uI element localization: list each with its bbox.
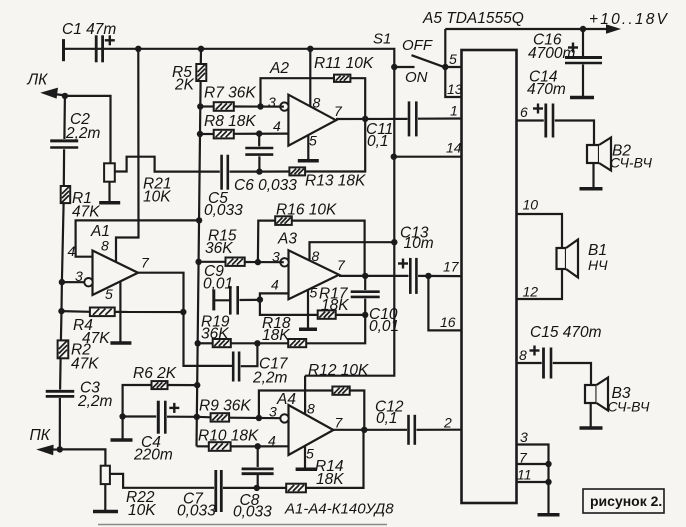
label C3 <box>80 380 100 397</box>
wire R13 left <box>259 170 289 172</box>
resistor R10 18K <box>209 442 231 451</box>
label R22 <box>126 489 155 506</box>
label C17 value <box>252 370 288 387</box>
label C8 value <box>233 503 272 520</box>
op-amp A4 <box>280 405 333 455</box>
label C12 <box>375 399 404 416</box>
svg-text:7: 7 <box>334 103 343 119</box>
resistor R17 18K <box>318 310 336 318</box>
label R19 <box>201 314 230 331</box>
wire pin 5 lead <box>445 66 461 68</box>
node junction dot A3 input3 / R16 <box>255 259 261 265</box>
node junction dot A4 input4 / C8 <box>255 443 261 449</box>
ground under pins 3-7-11 <box>538 513 560 517</box>
capacitor C16 polarity plus <box>568 43 578 53</box>
node junction dot S1 right / +V feed <box>442 64 448 70</box>
pin number 12 label <box>523 284 539 300</box>
wire C12 to pin 2 <box>417 429 462 431</box>
loudspeaker B3 <box>585 378 608 411</box>
label C7 value <box>177 503 216 520</box>
svg-text:8: 8 <box>101 238 109 254</box>
svg-text:18K: 18K <box>316 471 344 488</box>
label C7 <box>183 491 204 508</box>
label A2 <box>269 60 289 77</box>
node junction dot C10 / R17 / R18 <box>362 312 368 318</box>
wire R11 loop <box>261 78 335 106</box>
resistor R14 18K <box>286 484 306 493</box>
label C10 value <box>369 318 399 335</box>
potentiometer R21 10K <box>104 163 115 181</box>
wire A1 pin8 to top rail <box>116 49 139 262</box>
wire LK to R21 top <box>65 96 111 163</box>
capacitor C8 0,033 (vertical) <box>242 469 274 474</box>
wire R1 to A1 input3 node <box>62 203 64 282</box>
label R21 value <box>143 189 171 206</box>
node junction dot A3 output / R16 / C10 <box>362 273 368 279</box>
figure label box <box>583 489 664 513</box>
wire top rail from C1 to S1 <box>64 49 395 67</box>
label A3 pin3 <box>272 249 280 265</box>
label C6 value <box>234 177 297 194</box>
wire pin 14 lead <box>393 156 461 158</box>
wire C7 right to C8 node <box>223 487 257 489</box>
label A4 pin5 <box>306 446 314 462</box>
svg-text:0,1: 0,1 <box>367 133 389 150</box>
wire R18 left <box>257 342 288 344</box>
wire C10 bottom lead <box>364 299 366 315</box>
svg-text:0,033: 0,033 <box>177 503 216 520</box>
wire R22 bottom to ground <box>104 484 106 511</box>
wire R16 left <box>258 221 275 263</box>
svg-text:13: 13 <box>447 81 463 97</box>
resistor R12 10K <box>332 387 349 395</box>
node junction dot R9/C4 tap <box>194 414 200 420</box>
label A1 <box>90 223 110 240</box>
wire A3 pin5 to ground <box>307 290 309 328</box>
svg-text:18K: 18K <box>321 297 349 314</box>
capacitor C15 470m <box>544 348 552 379</box>
label R21 <box>143 176 171 193</box>
label C4 value <box>133 447 173 464</box>
wire pin 8 to C15 <box>517 362 542 364</box>
svg-text:2: 2 <box>443 415 452 431</box>
pin number 13 label <box>447 81 463 97</box>
capacitor C15 polarity plus <box>530 346 540 356</box>
label C12 value <box>376 410 398 427</box>
capacitor C16 4700m <box>565 58 602 64</box>
wire C16 top lead <box>582 29 584 56</box>
svg-text:4: 4 <box>68 243 76 259</box>
ground under B3 <box>580 426 603 430</box>
label C5 <box>208 190 228 207</box>
wire +V from S1 junction up to supply rail <box>444 29 446 67</box>
wire C8 bottom lead <box>257 475 259 489</box>
svg-text:17: 17 <box>443 259 460 275</box>
pin number 16 label <box>440 314 456 330</box>
svg-text:+10..18V: +10..18V <box>589 11 669 28</box>
input arrow LK <box>40 88 65 99</box>
resistor R1 47K <box>61 186 70 203</box>
svg-text:5: 5 <box>309 133 317 149</box>
svg-text:8: 8 <box>313 95 321 111</box>
label C16 value <box>528 45 575 62</box>
capacitor C7 0,033 <box>216 470 222 512</box>
ground under C16 <box>570 96 594 100</box>
IC U A5 TDA1555Q body <box>462 50 517 503</box>
label C5 value <box>204 202 243 219</box>
label A1 pin7 <box>141 255 150 271</box>
wire C4 ground stub <box>121 417 123 440</box>
node junction dot A4 input3 / R12 <box>256 415 262 421</box>
svg-text:C15 470m: C15 470m <box>530 324 602 341</box>
svg-text:А1-А4-К140УД8: А1-А4-К140УД8 <box>284 501 394 518</box>
wire R4 right <box>115 311 184 313</box>
svg-text:3: 3 <box>269 404 277 420</box>
capacitor C6 0,033 (vertical) <box>245 148 273 155</box>
capacitor C13 polarity plus <box>398 259 408 269</box>
wire A1 input3 <box>62 281 84 283</box>
svg-text:S1: S1 <box>373 31 391 48</box>
svg-text:5: 5 <box>105 286 113 302</box>
wire R19 right <box>231 342 258 344</box>
wire C4 right lead <box>167 416 197 418</box>
wire B1 to pin 12 <box>517 269 563 299</box>
node junction dot LK input <box>62 93 68 99</box>
node junction dot A2 output / R11 / R13 <box>362 116 368 122</box>
capacitor C9 0,01 <box>230 286 237 315</box>
capacitor C3 2,2m <box>46 391 75 396</box>
wire pin 11 lead <box>517 481 549 483</box>
svg-text:2,2m: 2,2m <box>252 370 288 387</box>
wire R8 right to A2 input4 <box>234 133 289 135</box>
label C4 <box>141 434 161 451</box>
label R22 value <box>128 502 156 519</box>
capacitor C1 47m <box>96 35 102 62</box>
wire R10 right to A4 input4 <box>231 445 289 447</box>
wire C5 to R13 node <box>230 171 260 173</box>
svg-text:3: 3 <box>75 268 83 284</box>
label R14 value <box>316 471 344 488</box>
svg-text:3: 3 <box>272 249 280 265</box>
svg-text:7: 7 <box>335 415 344 431</box>
svg-text:СЧ-ВЧ: СЧ-ВЧ <box>608 399 650 415</box>
wire PK to R22 top <box>60 449 106 465</box>
node junction dot A3 pin8 tap <box>391 239 397 245</box>
label LK <box>27 72 49 89</box>
label R18 <box>262 315 291 332</box>
label R2 <box>71 342 91 359</box>
label R10 value <box>198 428 259 445</box>
wire C3 to PK node <box>59 398 61 449</box>
node junction dot S1 left <box>391 64 397 70</box>
wire R14 left <box>257 487 286 489</box>
svg-text:1: 1 <box>450 103 458 119</box>
svg-text:16: 16 <box>440 314 456 330</box>
svg-text:18K: 18K <box>262 327 290 344</box>
svg-text:36K: 36K <box>205 240 233 257</box>
capacitor C13 10m <box>410 258 416 294</box>
switch S1 lever (open, OFF position) <box>412 55 444 67</box>
label R12 value <box>308 362 369 379</box>
wire pin 3 lead <box>517 445 549 515</box>
node junction dot A3 input4 / R17 <box>257 296 263 302</box>
svg-text:10m: 10m <box>404 235 434 252</box>
label R2 value <box>71 356 99 373</box>
wire R14 right to output <box>306 430 364 488</box>
svg-text:6: 6 <box>520 104 528 120</box>
label R15 <box>208 228 237 245</box>
ground under A3 pin5 <box>299 327 317 331</box>
wire R16 right to output <box>292 221 365 276</box>
svg-text:47K: 47K <box>72 204 100 221</box>
label C2 value <box>65 125 101 142</box>
wire C17 right up to R18 node <box>241 343 258 366</box>
label R11 value <box>314 55 374 72</box>
svg-text:220m: 220m <box>133 447 173 464</box>
label R5 <box>172 64 192 81</box>
svg-text:5: 5 <box>310 285 318 301</box>
ground under A4 pin5 <box>296 468 317 472</box>
op-amp A2 <box>280 95 336 146</box>
label C14 value <box>527 81 566 98</box>
capacitor C14 polarity plus <box>533 104 543 114</box>
label R18 value <box>262 327 290 344</box>
op-amp A1 <box>84 251 138 296</box>
label C10 <box>369 306 398 323</box>
svg-text:A2: A2 <box>269 60 289 77</box>
loudspeaker B2 <box>587 138 611 171</box>
label A3 pin8 <box>312 248 320 264</box>
resistor R6 2K <box>152 381 168 389</box>
wire R22 wiper to C7 <box>110 474 214 488</box>
resistor R5 2K <box>196 64 206 81</box>
wire A2 pin5 to ground <box>307 135 309 160</box>
resistor R7 36K <box>214 102 234 111</box>
label S1 <box>373 31 391 48</box>
svg-text:7: 7 <box>519 450 528 466</box>
wire R11 right to output <box>350 78 365 119</box>
svg-text:4: 4 <box>271 277 279 293</box>
label A1 pin8 <box>101 238 109 254</box>
label R4 value <box>82 330 110 347</box>
label R17 value <box>321 297 349 314</box>
node junction dot R19 tap <box>195 340 201 346</box>
ground under R21 <box>99 201 120 205</box>
label C13 <box>400 225 429 242</box>
svg-text:R10 18K: R10 18K <box>198 428 259 445</box>
svg-text:12: 12 <box>523 284 539 300</box>
svg-text:10K: 10K <box>128 502 156 519</box>
wire C2 to R1 <box>63 149 65 186</box>
svg-text:R8 18K: R8 18K <box>204 113 256 130</box>
label C3 value <box>77 393 113 410</box>
node junction dot pin11 gnd <box>545 479 551 485</box>
label C9 value <box>203 276 233 293</box>
resistor R18 18K <box>288 339 306 347</box>
wire B3 to ground <box>590 403 592 427</box>
label C9 <box>204 263 224 280</box>
resistor R11 10K <box>334 75 350 82</box>
label R7 value <box>204 85 256 102</box>
resistor R4 47K <box>90 308 115 317</box>
svg-text:рисунок 2.: рисунок 2. <box>590 493 662 509</box>
label A4 <box>276 391 296 408</box>
op-amp A3 <box>280 250 339 299</box>
wire C6 top lead <box>258 134 260 147</box>
pin number 7 label <box>519 450 528 466</box>
label C17 <box>259 356 289 373</box>
label B1 <box>588 242 607 259</box>
resistor R2 47K <box>58 340 69 358</box>
wire B2 to ground <box>592 163 594 188</box>
ground under B2 <box>580 187 603 191</box>
wire A3 output to C13 <box>339 275 409 277</box>
resistor R8 18K <box>214 130 234 139</box>
capacitor C2 2,2m <box>50 141 78 148</box>
label R8 value <box>204 113 256 130</box>
wire C11 to pin 1 <box>418 117 462 119</box>
capacitor C1 polarity plus <box>105 35 115 45</box>
node junction dot A2 input3 / R11 <box>257 103 263 109</box>
node junction dot pin14 on +V rail <box>391 154 397 160</box>
pin number 8 label <box>519 347 527 363</box>
label R1 value <box>72 204 100 221</box>
label B3 type <box>608 399 650 415</box>
resistor R16 10K <box>275 216 292 225</box>
node junction dot R4 left <box>58 308 64 314</box>
label R6 value <box>133 365 177 382</box>
svg-text:0,01: 0,01 <box>203 276 233 293</box>
label A3 <box>277 231 297 248</box>
svg-text:470m: 470m <box>527 81 566 98</box>
label R1 <box>72 190 92 207</box>
resistor R19 36K <box>213 339 231 347</box>
label R14 <box>315 458 344 475</box>
node junction dot A1 pin4 tap <box>196 217 202 223</box>
svg-text:10K: 10K <box>143 189 171 206</box>
wire C15 to B3 <box>553 363 591 385</box>
label A4 pin3 <box>269 404 277 420</box>
capacitor C4 polarity plus <box>169 403 179 413</box>
svg-text:3: 3 <box>268 94 276 110</box>
wire R13 right to output <box>305 119 365 172</box>
node junction dot A1 output / R4 <box>180 309 186 315</box>
label R9 value <box>199 398 251 415</box>
label C14 <box>529 69 558 86</box>
wire +V rail S1 down to A4 pin8 <box>305 67 394 376</box>
resistor R13 18K <box>289 167 305 175</box>
loudspeaker B1 <box>557 240 579 278</box>
wire C13 to pin17 <box>418 275 461 277</box>
svg-text:10: 10 <box>523 197 539 213</box>
svg-text:47K: 47K <box>82 330 110 347</box>
wire R8 left <box>200 133 214 135</box>
label C8 <box>240 492 260 509</box>
svg-text:4: 4 <box>268 433 276 449</box>
label C11 value <box>367 133 389 150</box>
label R5 value <box>174 77 195 94</box>
pin number 2 label <box>443 415 452 431</box>
figure label text <box>590 493 662 509</box>
pin number 5 label <box>449 51 457 67</box>
wire R21 wiper staircase to C5 <box>115 157 220 172</box>
wire R15 right to A3 input3 <box>245 261 284 263</box>
node junction dot A1 input3 <box>59 279 65 285</box>
label C2 <box>70 111 90 128</box>
label B3 <box>612 385 631 402</box>
label R15 value <box>205 240 233 257</box>
potentiometer R22 10K <box>101 466 110 484</box>
svg-text:0,1: 0,1 <box>376 410 398 427</box>
pin number 17 label <box>443 259 460 275</box>
wire pin 13 lead <box>445 67 461 97</box>
wire R12 right to output <box>350 391 365 430</box>
label +10..18V <box>589 11 669 28</box>
svg-text:4700m: 4700m <box>528 45 575 62</box>
svg-text:СЧ-ВЧ: СЧ-ВЧ <box>610 155 652 171</box>
label B2 type <box>610 155 652 171</box>
label A3 pin7 <box>337 257 346 273</box>
pin number 1 label <box>450 103 458 119</box>
label OFF <box>402 37 433 54</box>
page scan edge artifact <box>98 524 387 526</box>
wire A4 pin5 to ground <box>304 446 306 468</box>
wire R7 right to A2 input3 <box>234 105 284 107</box>
pin number 6 label <box>520 104 528 120</box>
wire A2 output to C11 <box>336 118 408 120</box>
svg-text:7: 7 <box>141 255 150 271</box>
wire R10 left corner <box>197 445 209 447</box>
wire bias vertical R5 to R10 <box>197 81 201 446</box>
wire R17 left <box>260 300 318 315</box>
node junction dot PK input <box>57 446 63 452</box>
label C11 <box>366 121 393 138</box>
svg-text:11: 11 <box>517 467 532 483</box>
node junction dot C5/C6/R13 <box>256 168 262 174</box>
node junction dot R15 tap <box>195 259 201 265</box>
svg-text:A4: A4 <box>276 391 296 408</box>
svg-text:5: 5 <box>449 51 457 67</box>
wire A1 pin5 to ground <box>119 282 121 343</box>
capacitor C1 input terminal bar <box>62 39 65 61</box>
input arrow PK <box>36 445 60 456</box>
label A3 pin4 <box>271 277 279 293</box>
svg-text:47K: 47K <box>71 356 99 373</box>
label A1 pin4 <box>68 243 76 259</box>
label C15 value <box>530 324 602 341</box>
label A2 pin3 <box>268 94 276 110</box>
wire supply rail +10..18V <box>445 28 610 30</box>
label A4 pin7 <box>335 415 344 431</box>
node junction dot pin7 gnd <box>545 461 551 467</box>
wire R4 node down to R2 <box>60 311 63 340</box>
svg-text:R16 10K: R16 10K <box>276 202 337 219</box>
label R17 <box>319 286 349 303</box>
capacitor C14 470m <box>546 104 553 138</box>
wire R9 left <box>197 416 211 419</box>
capacitor C9 terminal bar <box>212 289 215 310</box>
node junction dot R7 tap <box>197 103 203 109</box>
wire A1 input4 <box>76 220 200 256</box>
ground under R22 <box>93 510 118 514</box>
pin number 14 label <box>446 140 462 156</box>
label A2 pin5 <box>309 133 317 149</box>
label A1 pin3 <box>75 268 83 284</box>
wire C9 right to A3 input4 node <box>239 299 260 301</box>
label ON <box>405 69 428 86</box>
label B2 <box>612 142 631 159</box>
label C13 value <box>404 235 434 252</box>
